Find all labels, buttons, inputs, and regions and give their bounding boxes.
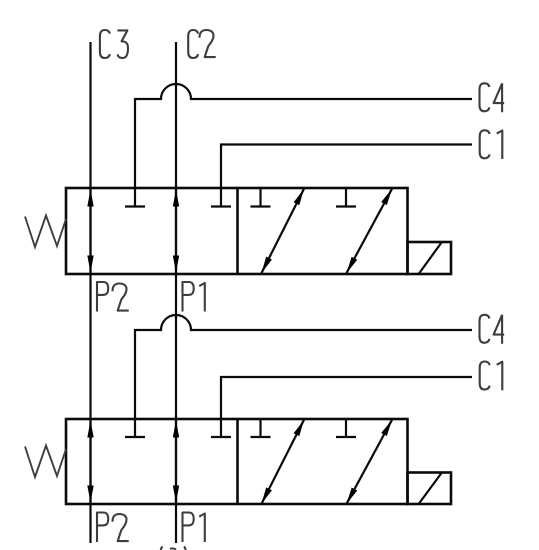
- wire C1 of valve V2: [221, 377, 472, 419]
- valve V2 spring: [25, 446, 66, 478]
- valve V2 blocked port T at x=260.5: [251, 419, 271, 437]
- valve V2 solenoid: [408, 473, 452, 505]
- valve V1 flow arrow C2-P1 (vertical double arrow): [175, 190, 177, 273]
- valve V2 blocked port T at x=221: [211, 419, 231, 437]
- label C4 (valve V2): [480, 315, 505, 344]
- valve V1 blocked port T at x=346: [336, 188, 356, 207]
- valve V1 spring: [25, 216, 66, 248]
- label C3: [100, 30, 128, 58]
- valve V1 body: [66, 188, 408, 274]
- caption (a) clipped at bottom edge: [161, 547, 186, 550]
- valve V1 crossed flow arrow 1 (diagonal double arrow): [262, 189, 305, 273]
- label P2 (valve V2): [97, 513, 129, 543]
- valve V1 solenoid: [408, 242, 452, 274]
- label C1 (valve V1): [480, 130, 503, 159]
- wire C4 of valve V2 with crossover hop over P1 line: [135, 315, 472, 419]
- label C1 (valve V2): [480, 362, 503, 391]
- valve V2 blocked port T at x=346: [336, 419, 356, 437]
- valve V1 blocked port T at x=135: [125, 188, 145, 207]
- valve V2 flow arrow P1 (vertical double arrow): [175, 421, 177, 503]
- valve V2 crossed flow arrow 1 (diagonal double arrow): [262, 420, 305, 504]
- valve V2 flow arrow P2 (vertical double arrow): [89, 421, 91, 503]
- label C2: [188, 30, 216, 58]
- label C4 (valve V1): [480, 83, 505, 112]
- valve V1 flow arrow C3-P2 (vertical double arrow): [89, 190, 91, 273]
- valve V2 crossed flow arrow 2 (diagonal double arrow): [347, 420, 393, 504]
- valve V2 body: [66, 419, 408, 504]
- label P1 (valve V2): [183, 513, 205, 543]
- valve V1 crossed flow arrow 2 (diagonal double arrow): [347, 189, 393, 273]
- wire C4 of valve V1 with crossover hop over C2 line: [135, 84, 472, 188]
- valve V1 blocked port T at x=221: [211, 188, 231, 207]
- label P2 (valve V1): [97, 282, 129, 312]
- valve V2 blocked port T at x=135: [125, 419, 145, 437]
- wire C2/P1 vertical line: [175, 42, 177, 543]
- wire C3/P2 vertical line: [89, 42, 91, 543]
- label P1 (valve V1): [183, 282, 205, 312]
- valve V1 blocked port T at x=260.5: [251, 188, 271, 207]
- wire C1 of valve V1: [221, 145, 472, 189]
